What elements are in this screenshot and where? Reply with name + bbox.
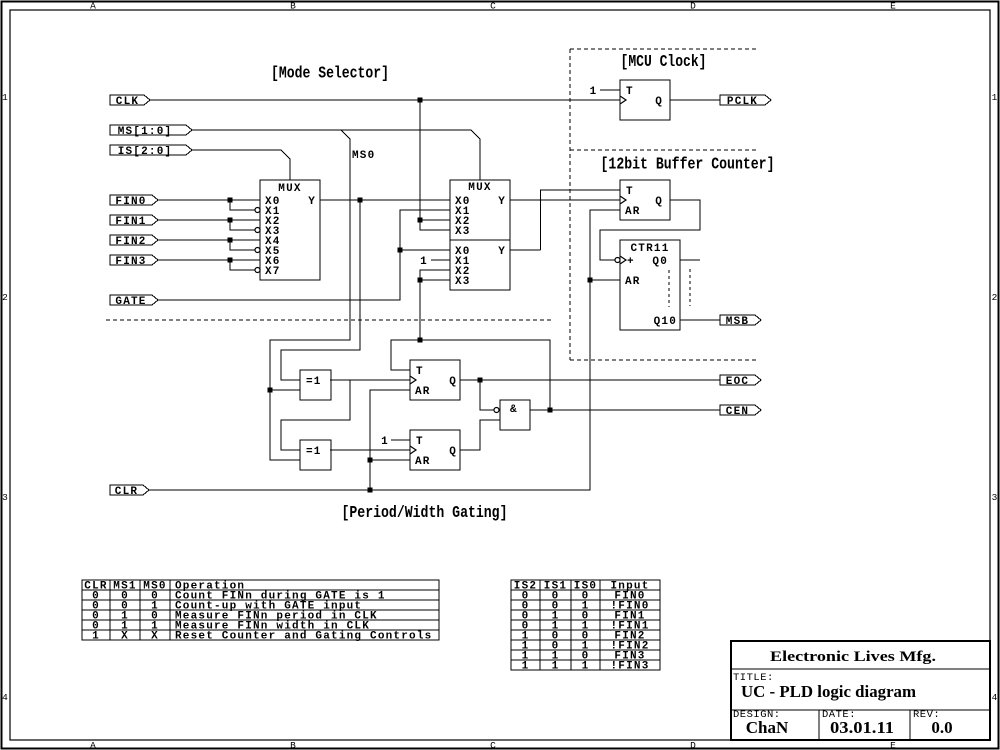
wire net GATE to U2a X1 and U2b X0 [157, 210, 450, 300]
mode table row 011 [92, 621, 370, 633]
wire U3 Q to PCLK flag [670, 99, 720, 101]
wire net FIN0 to U1 X0 X1 [158, 200, 260, 210]
svg-text:AR: AR [625, 206, 641, 218]
junction EOC at U8 Q [478, 378, 483, 383]
svg-text:1: 1 [92, 631, 100, 643]
wire net FIN2 to U1 X4 X5 [158, 240, 260, 250]
svg-text:Q: Q [655, 96, 663, 108]
dashed separator between MCU Clock and Buffer Counter [570, 149, 757, 151]
svg-text:X3: X3 [455, 226, 471, 238]
wire xor U6 output to U8 clock [330, 379, 410, 381]
wire net U1 Y output to U2a X0 [320, 199, 450, 201]
dashed separator mode selector [106, 319, 553, 321]
junction U1 Y branch [358, 198, 363, 203]
svg-text:Y: Y [498, 246, 506, 258]
mux U1 inversion bubble pin X3 [255, 228, 260, 233]
svg-text:03.01.11: 03.01.11 [830, 718, 894, 737]
svg-text:=1: =1 [306, 376, 322, 388]
wire U5 Q0 stub [680, 259, 700, 261]
junction CLK at U2a X2 [418, 218, 423, 223]
junction GATE branch [398, 248, 403, 253]
flip-flop U9 T-FF gating [410, 430, 460, 470]
svg-text:[12bit Buffer Counter]: [12bit Buffer Counter] [601, 156, 775, 175]
mode table row 001 [92, 601, 362, 613]
svg-text:1: 1 [381, 436, 389, 448]
wire net CLK vertical branch to U2a X2 X3 [420, 100, 450, 230]
title block dividers [731, 669, 990, 740]
mux U1 inversion bubble pin X1 [255, 208, 260, 213]
wire net CEN feedback to U8 T and U2b X2 X3 [391, 270, 550, 410]
svg-text:Q10: Q10 [654, 316, 677, 328]
svg-text:T: T [626, 186, 634, 198]
svg-text:Q: Q [655, 196, 663, 208]
wire net EOC from U8 Q to flag [460, 379, 720, 381]
svg-text:1: 1 [2, 92, 8, 103]
zone numbers left [2, 92, 8, 703]
net flag EOC [720, 375, 761, 388]
svg-text:AR: AR [625, 276, 641, 288]
svg-text:Q: Q [449, 446, 457, 458]
wire net U1 Y branch down to xor U6 input A [281, 200, 360, 380]
svg-text:MS0: MS0 [352, 150, 375, 162]
mux U1 inversion bubble pin X7 [255, 268, 260, 273]
input table grid [511, 580, 660, 670]
svg-text:AR: AR [415, 456, 431, 468]
net flag GATE [110, 295, 158, 308]
input table row 011 [522, 621, 650, 633]
svg-text:E: E [890, 740, 896, 750]
svg-text:X: X [151, 631, 159, 643]
counter U5 CTR11 body [620, 240, 680, 330]
svg-text:T: T [416, 366, 424, 378]
svg-text:D: D [690, 1, 696, 12]
input table row 000 [522, 591, 646, 603]
svg-text:PCLK: PCLK [727, 96, 758, 108]
mode table header row [84, 581, 245, 593]
svg-text:&: & [510, 404, 518, 416]
svg-text:+: + [627, 256, 635, 268]
svg-text:Q0: Q0 [652, 256, 668, 268]
mode table grid [82, 580, 439, 640]
svg-text:C: C [490, 740, 496, 750]
svg-text:1: 1 [992, 92, 998, 103]
zone numbers right [992, 92, 998, 703]
flip-flop U8 T-FF gating [410, 360, 460, 400]
junction CLR line [368, 488, 373, 493]
svg-text:FIN1: FIN1 [115, 216, 146, 228]
svg-text:IS[2:0]: IS[2:0] [118, 146, 173, 158]
junction MS0 at xor U6 input B [268, 388, 273, 393]
svg-text:GATE: GATE [115, 296, 146, 308]
net flag CLR [110, 485, 149, 498]
wire net MS[1:0] bus [192, 130, 480, 180]
svg-text:EOC: EOC [726, 376, 749, 388]
wire U9 Q to and gate U10 input B [460, 420, 500, 450]
and gate U10 input inversion bubble [494, 408, 499, 413]
svg-text:FIN3: FIN3 [115, 256, 146, 268]
svg-text:4: 4 [2, 692, 8, 703]
constant 1 at U9 T input [381, 436, 410, 448]
svg-text:MUX: MUX [468, 182, 491, 194]
mux U1 inversion bubble pin X5 [255, 248, 260, 253]
svg-text:AR: AR [415, 386, 431, 398]
svg-text:A: A [90, 1, 96, 12]
svg-text:X7: X7 [265, 266, 281, 278]
svg-text:Y: Y [498, 196, 506, 208]
junction CLK branch [418, 98, 423, 103]
svg-text:3: 3 [2, 492, 8, 503]
xor gate U7 =1 [300, 440, 331, 470]
svg-text:UC - PLD logic diagram: UC - PLD logic diagram [741, 682, 916, 701]
svg-text:Electronic Lives Mfg.: Electronic Lives Mfg. [770, 649, 936, 665]
wire net CLR from flag to U4 AR and U5 AR [149, 210, 620, 490]
svg-text:X: X [121, 631, 129, 643]
mux U2b 4-input MUX body [450, 240, 510, 290]
svg-text:1: 1 [582, 661, 590, 673]
counter U5 dashed pin continuation inside [668, 270, 670, 307]
svg-text:MS[1:0]: MS[1:0] [118, 126, 173, 138]
svg-text:X3: X3 [455, 276, 471, 288]
svg-text:Y: Y [308, 196, 316, 208]
net flag CLK [110, 95, 150, 108]
junction FIN0 [228, 198, 233, 203]
svg-text:1: 1 [552, 661, 560, 673]
input table header row [514, 581, 650, 593]
title block outline [731, 641, 990, 740]
mux U2a 4-input MUX body [450, 180, 510, 240]
counter U5 dashed pin continuation outside [689, 269, 691, 306]
wire xor U6 output branch to xor U7 input A [281, 380, 350, 450]
wire U2a Y to U4 clock [510, 199, 620, 201]
junction AR net at U9 [368, 458, 373, 463]
junction CEN at U2b X3 [418, 278, 423, 283]
svg-text:1: 1 [522, 661, 530, 673]
wire net CLK horizontal to U3 clock [150, 99, 620, 101]
svg-text:D: D [690, 740, 696, 750]
mode table row 1XX [92, 631, 432, 643]
input table row 001 [522, 601, 650, 613]
svg-text:2: 2 [2, 292, 8, 303]
svg-text:1: 1 [590, 86, 598, 98]
svg-text:B: B [290, 1, 296, 12]
svg-text:CTR11: CTR11 [630, 243, 669, 255]
svg-text:Q: Q [449, 376, 457, 388]
svg-text:CLK: CLK [116, 96, 139, 108]
svg-text:MSB: MSB [726, 316, 749, 328]
svg-text:Reset Counter and Gating Contr: Reset Counter and Gating Controls [175, 631, 432, 643]
svg-text:CLR: CLR [115, 486, 138, 498]
input table row 111 [522, 661, 650, 673]
and gate U10 & [500, 400, 530, 430]
svg-text:MUX: MUX [278, 183, 301, 195]
net flag FIN0 [110, 195, 158, 208]
svg-text:4: 4 [992, 692, 998, 703]
junction CEN at T feed [418, 338, 423, 343]
svg-text:A: A [90, 740, 96, 750]
constant 1 at U3 T input [590, 86, 620, 98]
junction AR net at U5 [588, 278, 593, 283]
wire net IS[2:0] bus to U1 select [192, 150, 290, 180]
net flag IS[2:0] [110, 145, 192, 158]
net flag MSB [720, 315, 761, 328]
input table row 100 [522, 631, 646, 643]
svg-text:2: 2 [992, 292, 998, 303]
constant 1 at U2b X1 input [420, 256, 450, 268]
input table row 101 [522, 641, 650, 653]
net flag PCLK [720, 95, 771, 108]
input table row 110 [522, 651, 646, 663]
svg-text:0.0: 0.0 [931, 718, 952, 737]
counter U5 clock inversion bubble [615, 258, 620, 263]
flip-flop U4 T-FF buffer counter stage [620, 180, 670, 220]
svg-text:B: B [290, 740, 296, 750]
junction FIN3 [228, 258, 233, 263]
junction FIN2 [228, 238, 233, 243]
svg-text:ChaN: ChaN [746, 718, 789, 737]
svg-text:!FIN3: !FIN3 [610, 661, 649, 673]
svg-text:[Period/Width Gating]: [Period/Width Gating] [342, 504, 508, 523]
wire net FIN3 to U1 X6 X7 [158, 260, 260, 270]
wire U2b Y to U4 T [510, 190, 620, 250]
mux U1 8-input MUX body [260, 180, 320, 280]
dashed box MCU Clock / Buffer Counter left edge [569, 49, 571, 360]
wire net FIN1 to U1 X2 X3 [158, 220, 260, 230]
mode table row 010 [92, 611, 378, 623]
wire U5 Q10 to MSB flag [680, 319, 720, 321]
wire net CEN from U10 output to flag [530, 409, 720, 411]
svg-text:CEN: CEN [726, 406, 749, 418]
net flag FIN1 [110, 215, 158, 228]
dashed box bottom edge Buffer Counter [570, 359, 757, 361]
svg-text:[Mode Selector]: [Mode Selector] [271, 65, 389, 84]
net flag CEN [720, 405, 761, 418]
svg-text:T: T [416, 436, 424, 448]
junction FIN1 [228, 218, 233, 223]
svg-text:FIN2: FIN2 [115, 236, 146, 248]
svg-text:=1: =1 [306, 446, 322, 458]
svg-text:T: T [626, 86, 634, 98]
flip-flop U3 T-FF MCU clock divider [620, 80, 670, 120]
svg-text:E: E [890, 1, 896, 12]
wire U8 Q branch to and gate U10 input A [480, 380, 494, 410]
mode table row 000 [92, 591, 386, 603]
net flag FIN3 [110, 255, 158, 268]
xor gate U6 =1 [300, 370, 331, 400]
wire xor U7 output to U9 clock [330, 449, 410, 451]
net flag MS[1:0] [110, 125, 192, 138]
zone letters bottom [90, 740, 896, 750]
svg-text:3: 3 [992, 492, 998, 503]
zone letters top [90, 1, 896, 12]
svg-text:C: C [490, 1, 496, 12]
wire U4 Q loop to U5 clock [600, 200, 700, 260]
junction CEN at U10 output [548, 408, 553, 413]
dashed box top edge MCU Clock [570, 48, 757, 50]
input table row 010 [522, 611, 646, 623]
svg-text:[MCU Clock]: [MCU Clock] [621, 53, 707, 72]
wire U8 U9 AR branch to CLR [370, 390, 410, 490]
svg-text:1: 1 [420, 256, 428, 268]
svg-text:FIN0: FIN0 [115, 196, 146, 208]
wire net MS0 tap to xor gates [270, 130, 350, 460]
net flag FIN2 [110, 235, 158, 248]
